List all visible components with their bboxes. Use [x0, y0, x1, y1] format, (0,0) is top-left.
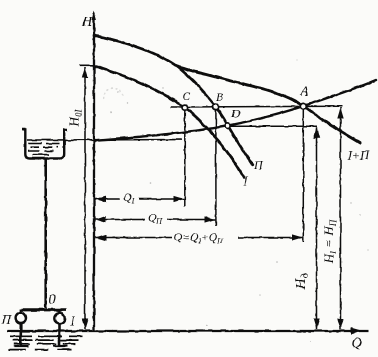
suction drop pipe pump I	[58, 324, 61, 346]
svg-text:I+П: I+П	[347, 149, 371, 163]
combined curve I+II	[178, 67, 360, 143]
scan speckles	[110, 60, 368, 342]
Q axis (also sump water surface)	[7, 328, 368, 335]
dimension H_0I	[84, 67, 86, 330]
dimension Q_II	[95, 210, 215, 226]
svg-text:D: D	[231, 107, 241, 121]
tank	[22, 130, 68, 159]
line through D	[228, 125, 317, 127]
svg-text:0: 0	[49, 292, 57, 308]
point D	[225, 123, 231, 129]
H axis	[92, 11, 97, 331]
stub manifold to pump II	[20, 309, 22, 314]
pump I	[54, 313, 64, 323]
svg-text:П: П	[1, 312, 13, 327]
dimension H_D	[316, 127, 318, 329]
svg-text:A: A	[300, 84, 309, 99]
system (pipeline) curve	[94, 80, 376, 140]
dimension H_I = H_II	[340, 108, 342, 330]
suction drop pipe pump II	[19, 323, 22, 346]
dimension Q_I	[95, 190, 184, 206]
dimension Q = Q_I + Q_II	[95, 229, 303, 246]
faint smudge	[104, 89, 123, 100]
tank water hatching	[28, 144, 61, 155]
sump water hatching	[9, 336, 83, 349]
pump II	[16, 313, 26, 323]
extension line below A	[302, 107, 304, 242]
suction pipe from tank	[44, 159, 47, 309]
tick at H_0I level	[80, 64, 96, 66]
curve I	[94, 66, 244, 178]
strainer pump I	[53, 345, 67, 347]
svg-text:Н: Н	[81, 15, 93, 30]
point C	[182, 105, 188, 111]
svg-text:B: B	[216, 90, 224, 104]
svg-text:C: C	[182, 89, 191, 103]
strainer pump II	[14, 345, 29, 347]
svg-text:I: I	[243, 174, 249, 188]
extension line below C	[184, 108, 186, 206]
svg-text:П: П	[253, 158, 264, 172]
manifold	[22, 308, 67, 311]
curve II	[94, 36, 253, 165]
head line through C B A	[171, 105, 343, 108]
stub manifold to pump I	[58, 309, 60, 314]
svg-text:Q: Q	[352, 336, 363, 352]
static level line from tank	[27, 139, 182, 141]
point B	[213, 104, 219, 110]
point A	[300, 103, 306, 109]
extension line below B	[215, 108, 217, 226]
